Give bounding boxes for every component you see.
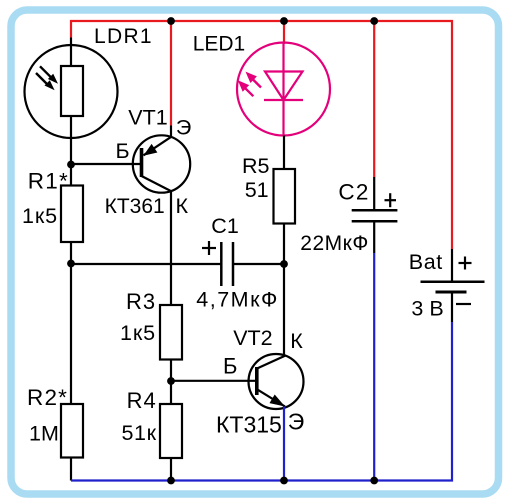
resistor R1 (61, 186, 83, 243)
svg-text:1к5: 1к5 (22, 204, 58, 228)
capacitor C1 (71, 242, 284, 286)
node: junction dot top rail / C2 (370, 17, 378, 25)
photoresistor LDR1 (25, 45, 118, 138)
wire: LED to R5 (283, 136, 285, 170)
node: junction dot R3/R4/VT2 base (167, 377, 175, 385)
resistor R5 (274, 169, 296, 224)
wire: LED1 drop from top rail (red) (283, 21, 285, 44)
LED LED1 (237, 43, 330, 136)
wire: VT1 collector to R3 (170, 192, 172, 306)
node: junction dot R1 top / VT1 base (67, 161, 75, 169)
wire: top positive rail (red) (71, 21, 452, 249)
battery Bat (421, 249, 485, 322)
svg-text:Б: Б (116, 139, 130, 163)
svg-text:VT1: VT1 (128, 106, 167, 130)
plus sign Bat (459, 257, 472, 270)
svg-text:51: 51 (245, 178, 269, 202)
node: junction dot bottom rail / VT2 emitter (280, 477, 288, 485)
svg-text:C2: C2 (338, 179, 369, 204)
plus sign C1 (202, 241, 216, 255)
svg-text:Э: Э (176, 115, 191, 139)
svg-text:R4: R4 (127, 388, 157, 413)
wire: C2 to bottom rail (blue) (373, 253, 375, 481)
node: junction dot bottom rail / R4 (167, 477, 175, 485)
wire: R2 bottom lead (70, 458, 72, 481)
wire: R3 to R4 (170, 360, 172, 405)
wire: left column R1 to R2 (70, 242, 72, 404)
svg-text:R5: R5 (242, 154, 270, 178)
plus sign C2 (385, 193, 397, 207)
node: junction dot left column / C1 wire (67, 260, 75, 268)
svg-text:C1: C1 (211, 214, 238, 238)
svg-text:1к5: 1к5 (120, 321, 156, 345)
svg-text:22МкФ: 22МкФ (300, 232, 369, 255)
svg-text:КТ361: КТ361 (105, 195, 165, 218)
wire: C2 drop from top rail (red) (373, 21, 375, 177)
node: junction dot top rail / LED1 (280, 17, 288, 25)
minus sign Bat (456, 303, 471, 305)
svg-text:LDR1: LDR1 (94, 25, 153, 48)
wire: left column black segment through LDR to R1 (70, 38, 72, 186)
svg-text:4,7МкФ: 4,7МкФ (196, 287, 279, 311)
svg-text:Э: Э (288, 408, 305, 434)
svg-text:КТ315: КТ315 (216, 411, 282, 437)
wire: VT1 emitter drop from top rail (red) (170, 21, 172, 126)
svg-text:LED1: LED1 (193, 33, 246, 56)
svg-text:R2*: R2* (27, 385, 68, 410)
wire: R4 bottom lead (170, 458, 172, 481)
wire: VT2 emitter to bottom rail (blue) (283, 407, 285, 481)
svg-text:R1*: R1* (28, 169, 69, 194)
svg-text:51к: 51к (122, 421, 157, 445)
transistor VT2 (KT315, NPN) (249, 354, 304, 409)
wire: R5 to VT2 collector (283, 224, 285, 355)
resistor R4 (160, 404, 182, 458)
node: junction dot C1 right / R5 / VT2 (280, 260, 288, 268)
wire: VT1 emitter black stub (170, 126, 172, 138)
transistor VT1 (KT361, PNP) (133, 135, 190, 192)
node: junction dot top rail / VT1 emitter (167, 17, 175, 25)
wire: VT1 base wire (71, 163, 142, 165)
svg-text:3 В: 3 В (411, 296, 443, 320)
wire: battery to bottom rail (blue) (71, 322, 452, 481)
resistor R2 (61, 404, 83, 458)
svg-text:R3: R3 (126, 289, 156, 314)
resistor R3 (160, 305, 182, 360)
svg-text:Bat: Bat (409, 250, 443, 274)
svg-text:К: К (176, 194, 189, 218)
wire: VT2 base wire (171, 380, 257, 382)
svg-text:Б: Б (223, 353, 237, 378)
svg-text:1М: 1М (29, 422, 59, 446)
node: junction dot bottom rail / C2 (370, 477, 378, 485)
capacitor C2 (352, 177, 398, 253)
svg-text:VT2: VT2 (233, 326, 272, 350)
svg-text:К: К (290, 329, 303, 353)
